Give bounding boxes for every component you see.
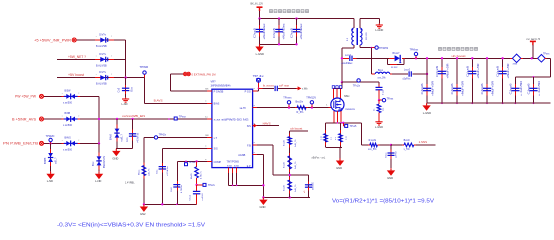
svg-text:+5V boost: +5V boost: [68, 73, 84, 77]
svg-text:NlMx: NlMx: [344, 95, 350, 98]
svg-text:B/5W: B/5W: [65, 90, 72, 93]
svg-text:TPxxx: TPxxx: [179, 116, 187, 119]
svg-text:B.xxB: B.xxB: [284, 185, 286, 191]
svg-text:TPxxx: TPxxx: [387, 97, 394, 100]
svg-text:B.Bd: B.Bd: [234, 165, 240, 167]
svg-text:B.xxB: B.xxB: [284, 162, 286, 168]
svg-text:B/x65: B/x65: [191, 173, 193, 179]
svg-text:B +5/NR_AVS: B +5/NR_AVS: [12, 117, 37, 121]
svg-text:S/S: S/S: [247, 125, 251, 128]
svg-text:TPxx5: TPxx5: [350, 125, 357, 128]
svg-text:R.xx2k: R.xx2k: [369, 139, 377, 142]
svg-text:xx/xxxWB_EN: xx/xxxWB_EN: [122, 114, 145, 118]
svg-text:HAVS: HAVS: [263, 122, 271, 126]
svg-text:Bxxx: Bxxx: [378, 70, 384, 72]
svg-text:TPW2N: TPW2N: [46, 135, 55, 138]
svg-text:x.xx/500: x.xx/500: [63, 102, 73, 105]
svg-text:TPxxx: TPxxx: [543, 54, 550, 56]
svg-text:4.7B_%: 4.7B_%: [201, 171, 203, 179]
svg-text:Lxxx2: Lxxx2: [345, 55, 352, 57]
svg-text:C/xx6: C/xx6: [498, 65, 500, 77]
svg-text:ub boost: ub boost: [290, 126, 302, 130]
svg-text:+NuF/Elec: +NuF/Elec: [264, 22, 266, 39]
svg-text:TPxx2: TPxx2: [189, 161, 196, 164]
svg-text:0 EXT/AVB_PW 1M: 0 EXT/AVB_PW 1M: [192, 72, 216, 76]
svg-text:xxF/50: xxF/50: [396, 151, 398, 158]
svg-text:x: x: [62, 140, 63, 142]
svg-text:L-ND: L-ND: [122, 102, 128, 106]
svg-text:x2yF/xx: x2yF/xx: [403, 78, 412, 80]
svg-text:C/xx6: C/xx6: [482, 82, 484, 94]
svg-text:xxF max: xxF max: [279, 84, 290, 88]
svg-text:+NuF+5R: +NuF+5R: [463, 81, 465, 96]
svg-text:GND: GND: [112, 156, 118, 160]
svg-text:x: x: [96, 36, 97, 38]
svg-text:+4.7uF/xx: +4.7uF/xx: [167, 165, 169, 176]
svg-text:C/xx5: C/xx5: [274, 27, 276, 38]
svg-text:-0.3V= <EN(in)<=VBIAS+0.3V E: -0.3V= <EN(in)<=VBIAS+0.3V EN threshold>…: [57, 223, 205, 229]
svg-text:1MP5A08VB/5AB/4A: 1MP5A08VB/5AB/4A: [211, 84, 231, 88]
svg-text:x.T: x.T: [214, 137, 218, 140]
svg-text:TPMxxx: TPMxxx: [410, 48, 419, 51]
svg-text:+NuF+5R: +NuF+5R: [478, 63, 480, 78]
svg-text:TPx2x: TPx2x: [208, 184, 216, 187]
svg-text:+4.7uF/xx: +4.7uF/xx: [137, 132, 139, 143]
svg-text:+NuF+5R: +NuF+5R: [508, 63, 510, 78]
svg-text:2: 2: [111, 74, 112, 76]
svg-text:Bxx2r: Bxx2r: [404, 139, 410, 142]
svg-text:L-ND: L-ND: [95, 179, 101, 183]
svg-text:B.xxB: B.xxB: [284, 140, 286, 146]
svg-text:2: 2: [78, 115, 79, 117]
svg-text:B/xxx7: B/xxx7: [393, 53, 401, 55]
svg-text:GND: GND: [260, 205, 266, 209]
svg-text:F.B: F.B: [247, 144, 251, 147]
svg-text:x: x: [96, 74, 97, 76]
svg-text:L-GND: L-GND: [375, 28, 383, 32]
svg-text:B/AS: B/AS: [214, 103, 220, 106]
svg-text:L-ND: L-ND: [47, 179, 53, 183]
svg-text:TPM12V: TPM12V: [306, 97, 316, 100]
svg-text:C/xx5: C/xx5: [292, 27, 294, 38]
svg-text:COMP: COMP: [214, 161, 222, 164]
svg-text:1xB_/%: 1xB_/%: [295, 139, 297, 147]
svg-text:+xxB_?: +xxB_?: [121, 134, 123, 142]
svg-text:2: 2: [111, 36, 112, 38]
svg-text:C/xx6: C/xx6: [422, 82, 424, 94]
svg-text:xExFxx - xxL: xExFxx - xxL: [312, 157, 326, 160]
svg-text:Lxxx2: Lxxx2: [404, 69, 411, 71]
svg-text:L-GND: L-GND: [256, 52, 264, 56]
svg-text:x_5%: x_5%: [404, 148, 411, 151]
svg-text:Vo=(R1/R2+1)*1 =(85/10+1)*1 =9: Vo=(R1/R2+1)*1 =(85/10+1)*1 =9.5V: [332, 199, 434, 205]
svg-text:D/V?s: D/V?s: [99, 71, 106, 74]
svg-text:x: x: [62, 115, 63, 117]
svg-text:C/xx6: C/xx6: [452, 82, 454, 94]
svg-text:VR?: VR?: [211, 79, 217, 83]
svg-text:Bxx2/n: Bxx2/n: [296, 101, 304, 104]
svg-text:2: 2: [111, 56, 112, 58]
svg-text:B.Bd: B.Bd: [227, 165, 233, 167]
svg-text:GN2: GN2: [140, 212, 146, 216]
svg-text:+NuF+5R: +NuF+5R: [493, 81, 495, 96]
svg-text:S/S: S/S: [214, 148, 218, 151]
svg-text:1.4YRBL: 1.4YRBL: [125, 181, 135, 184]
svg-text:P GG: P GG: [245, 90, 251, 93]
svg-text:xxx_5%: xxx_5%: [378, 77, 386, 79]
svg-text:TPH2x: TPH2x: [159, 134, 167, 137]
svg-text:xxx-xxx: xxx-xxx: [366, 31, 368, 40]
svg-text:T/NT/PGNB: T/NT/PGNB: [227, 162, 240, 164]
svg-text:D/V?s: D/V?s: [99, 33, 106, 36]
svg-text:P GA/5B: P GA/5B: [214, 91, 224, 94]
svg-text:E.P: E.P: [247, 166, 251, 168]
svg-text:+.4uF/5R: +.4uF/5R: [539, 80, 541, 96]
svg-text:1xB_/%: 1xB_/%: [295, 161, 297, 169]
svg-text:+NuF+5R: +NuF+5R: [448, 63, 450, 78]
svg-text:L-GND: L-GND: [423, 111, 431, 115]
svg-text:BAVS: BAVS: [65, 137, 72, 140]
svg-text:C/xx1: C/xx1: [190, 194, 192, 200]
svg-text:C/xx6: C/xx6: [467, 65, 469, 77]
svg-text:B.AVS: B.AVS: [154, 99, 163, 103]
svg-text:BK_/N_12V: BK_/N_12V: [251, 2, 264, 6]
svg-text:xxB_?: xxB_?: [55, 157, 57, 164]
svg-text:+NuF/Elec: +NuF/Elec: [283, 22, 285, 39]
svg-text:mosxxxx: mosxxxx: [345, 108, 355, 111]
svg-text:0.xxx: 0.xxx: [382, 89, 384, 95]
svg-text:x.xx/500: x.xx/500: [63, 149, 73, 152]
svg-text:+5 +5WV_/NR_PWR: +5 +5WV_/NR_PWR: [34, 39, 72, 43]
svg-text:+NuF/Elec: +NuF/Elec: [301, 22, 303, 39]
svg-text:nc term 5: nc term 5: [527, 38, 541, 41]
svg-text:C/xx6: C/xx6: [510, 82, 512, 94]
svg-text:b.xxxx: b.xxxx: [263, 84, 275, 88]
svg-text:PN P.WB_EN/LTB: PN P.WB_EN/LTB: [3, 142, 39, 146]
svg-text:TPxxxx: TPxxxx: [283, 97, 292, 100]
svg-text:PW +5W_PW: PW +5W_PW: [15, 95, 37, 99]
svg-text:L-GND: L-GND: [375, 125, 383, 129]
svg-text:sa.TF: sa.TF: [240, 107, 247, 110]
svg-text:x.xx/500: x.xx/500: [63, 124, 73, 127]
svg-text:1.SNS: 1.SNS: [419, 140, 428, 144]
svg-text:xxx/x00: xxx/x00: [313, 181, 315, 190]
svg-text:GND: GND: [387, 176, 393, 180]
svg-text:xx.xxx: xx.xxx: [391, 67, 398, 69]
svg-text:2: 2: [78, 93, 79, 95]
svg-text:TPWR: TPWR: [140, 65, 149, 69]
svg-text:+.4uF/5R: +.4uF/5R: [521, 80, 523, 96]
svg-text:B/4B8: B/4B8: [45, 157, 47, 164]
svg-text:+xxuF/Elec: +xxuF/Elec: [341, 63, 353, 65]
svg-text:x: x: [62, 93, 63, 95]
svg-text:x.Wb: x.Wb: [302, 88, 308, 91]
svg-text:x.xF/x0: x.xF/x0: [202, 193, 204, 201]
svg-text:xxB_/%: xxB_/%: [148, 169, 150, 176]
svg-text:B/NB: B/NB: [65, 112, 71, 115]
svg-text:xxx_5%: xxx_5%: [368, 148, 377, 151]
svg-text:ub boost: ub boost: [452, 54, 466, 58]
svg-text:B/xxx: B/xxx: [138, 169, 140, 175]
svg-text:+5W_NET ?: +5W_NET ?: [68, 55, 86, 59]
svg-text:B.AL/VSB: B.AL/VSB: [96, 45, 107, 48]
svg-text:C/xx6: C/xx6: [529, 82, 531, 94]
svg-text:x: x: [96, 56, 97, 58]
svg-text:B/4x8: B/4x8: [111, 133, 113, 140]
svg-text:GND: GND: [336, 166, 342, 170]
svg-text:C/x8: C/x8: [171, 187, 173, 192]
svg-text:B.AL/VSB: B.AL/VSB: [96, 64, 107, 67]
svg-text:4.7W/xx: 4.7W/xx: [181, 184, 183, 193]
svg-text:1xB_/%: 1xB_/%: [295, 184, 297, 192]
svg-text:AGNB: AGNB: [238, 154, 245, 157]
svg-text:TP/WH2: TP/WH2: [379, 47, 389, 50]
svg-text:D/V?s: D/V?s: [99, 53, 106, 56]
svg-text:C/xxx: C/xxx: [385, 152, 387, 158]
svg-text:x.xx s/dPW/5-5G NG: x.xx s/dPW/5-5G NG: [214, 118, 249, 121]
svg-text:2: 2: [78, 140, 79, 142]
svg-text:TP.x2x: TP.x2x: [353, 85, 361, 88]
svg-text:R_5%: R_5%: [297, 111, 305, 114]
svg-text:C/xx5: C/xx5: [255, 27, 257, 38]
svg-text:BW/AVS.6V: BW/AVS.6V: [103, 155, 106, 168]
svg-text:C/x5: C/x5: [118, 87, 120, 92]
svg-text:TP 4x: TP 4x: [253, 75, 265, 78]
svg-text:+NuF+5R: +NuF+5R: [433, 81, 435, 96]
svg-text:C/xx6: C/xx6: [437, 65, 439, 77]
svg-text:B.AL/VSB: B.AL/VSB: [96, 83, 107, 86]
